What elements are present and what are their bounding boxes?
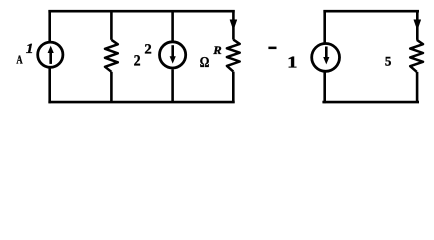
svg-text:1: 1 xyxy=(287,53,297,72)
svg-text:R: R xyxy=(212,45,222,57)
svg-text:1: 1 xyxy=(26,42,34,57)
svg-text:2: 2 xyxy=(144,43,151,58)
svg-text:5: 5 xyxy=(385,53,392,68)
svg-text:2: 2 xyxy=(134,53,141,70)
svg-text:Ω: Ω xyxy=(200,55,210,71)
svg-text:A: A xyxy=(16,53,22,67)
